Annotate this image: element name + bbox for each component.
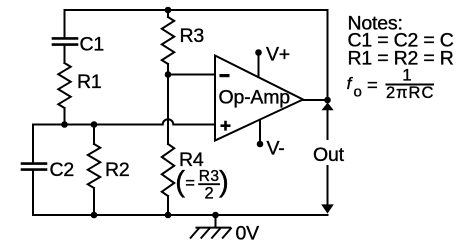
wire C1 branch upper bbox=[64, 10, 66, 37]
node output bbox=[324, 97, 331, 104]
node R3 / inverting input bbox=[165, 71, 172, 78]
wire output down to Out label bbox=[327, 108, 329, 139]
svg-text:Out: Out bbox=[313, 144, 345, 166]
arrowhead up at output node bbox=[322, 103, 334, 111]
wire top rail bbox=[65, 9, 328, 11]
op-amp inverting pin label bbox=[220, 74, 230, 77]
resistor R2 bbox=[88, 144, 100, 188]
wire R2 to bottom rail bbox=[93, 188, 95, 215]
svg-text:R2: R2 bbox=[105, 159, 130, 181]
wire R4 to bottom rail bbox=[167, 196, 169, 215]
svg-text:R1 = R2 = R: R1 = R2 = R bbox=[348, 48, 454, 70]
wire bottom rail bbox=[33, 214, 328, 216]
svg-text:=: = bbox=[185, 174, 195, 192]
resistor R1 bbox=[58, 63, 70, 108]
op-amp U1 triangle bbox=[215, 56, 303, 141]
svg-text:1: 1 bbox=[402, 66, 411, 85]
node R4 / bottom rail bbox=[165, 212, 172, 219]
resistor R3 bbox=[162, 17, 174, 64]
node V- terminal bbox=[257, 141, 264, 148]
wire R1 to middle rail bbox=[64, 108, 66, 125]
svg-text:=: = bbox=[367, 74, 378, 95]
wire V- stub bbox=[259, 121, 261, 145]
node R2 / middle rail bbox=[91, 121, 98, 128]
capacitor C2 bbox=[22, 164, 46, 170]
svg-text:(: ( bbox=[175, 166, 185, 199]
node R1 / middle rail bbox=[61, 121, 68, 128]
svg-text:2: 2 bbox=[205, 185, 214, 203]
node top rail / R3 bbox=[165, 7, 172, 14]
wire Out label down to arrow bbox=[327, 166, 329, 205]
svg-text:R1: R1 bbox=[77, 71, 102, 93]
resistor R4 bbox=[162, 144, 174, 196]
node ground / bottom rail bbox=[212, 212, 219, 219]
svg-text:C1: C1 bbox=[80, 34, 105, 56]
wire R2 branch upper bbox=[93, 125, 95, 145]
label fo formula bbox=[347, 66, 435, 103]
svg-text:V-: V- bbox=[267, 138, 285, 160]
ground symbol 0V bbox=[190, 228, 232, 239]
arrowhead down at Out terminal bbox=[321, 204, 334, 213]
wire inverting input bbox=[168, 74, 215, 76]
capacitor C1 bbox=[53, 38, 77, 44]
node R2 / bottom rail bbox=[91, 212, 98, 219]
wire C1 to R1 bbox=[64, 46, 66, 63]
wire ground stub bbox=[215, 215, 217, 228]
wire V+ stub bbox=[258, 53, 260, 77]
svg-text:C2: C2 bbox=[50, 159, 75, 181]
svg-text:Op-Amp: Op-Amp bbox=[219, 87, 291, 109]
wire C2 branch upper bbox=[32, 125, 34, 163]
wire R3 to node, down through hop to R4 bbox=[167, 64, 169, 144]
svg-text:2πRC: 2πRC bbox=[386, 84, 434, 102]
svg-text:): ) bbox=[219, 166, 229, 199]
wire top rail to R3 bbox=[167, 10, 169, 17]
wire op-amp output bbox=[303, 99, 328, 101]
label R4 value (= R3/2) bbox=[175, 166, 229, 203]
svg-text:0V: 0V bbox=[236, 223, 260, 245]
node V+ terminal bbox=[255, 49, 262, 56]
wire C2 to bottom rail bbox=[32, 171, 34, 215]
svg-text:R3: R3 bbox=[180, 25, 205, 47]
wire middle rail with hop over vertical bbox=[33, 119, 215, 124]
svg-text:V+: V+ bbox=[266, 44, 290, 66]
wire right feedback rail upper bbox=[327, 10, 329, 100]
svg-text:R3: R3 bbox=[199, 168, 220, 185]
op-amp non-inverting pin label bbox=[221, 121, 231, 131]
svg-text:o: o bbox=[354, 84, 362, 101]
